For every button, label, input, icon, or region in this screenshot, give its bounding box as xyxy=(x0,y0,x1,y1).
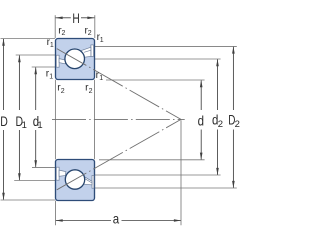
label D1 xyxy=(16,113,27,131)
svg-text:1: 1 xyxy=(37,120,42,131)
lower section right gap wedge xyxy=(84,176,92,185)
label r1 right upper xyxy=(97,32,104,44)
svg-text:1: 1 xyxy=(100,37,104,44)
bearing lower section outer square xyxy=(56,160,95,201)
extension line H left xyxy=(54,15,56,38)
label d xyxy=(198,112,204,128)
extension line D2 top xyxy=(94,45,237,47)
svg-text:1: 1 xyxy=(99,75,103,82)
dimension d1 xyxy=(34,67,37,168)
upper contact line xyxy=(57,49,181,120)
svg-text:2: 2 xyxy=(235,119,240,130)
svg-text:2: 2 xyxy=(218,119,223,130)
extension line H right xyxy=(94,15,96,38)
label D xyxy=(0,113,8,129)
label r1 right lower xyxy=(96,70,104,82)
extension line d2 bottom xyxy=(95,174,221,176)
svg-text:2: 2 xyxy=(61,88,65,95)
label a xyxy=(113,210,120,226)
label r2 bottom left xyxy=(57,83,65,95)
extension line a left xyxy=(55,201,57,226)
extension line D1 bottom xyxy=(14,180,55,182)
lower section left gap band xyxy=(59,170,66,176)
bearing upper section outer square xyxy=(56,39,95,80)
upper section ball xyxy=(65,49,85,69)
upper section right gap wedge xyxy=(81,47,91,57)
extension line D top xyxy=(1,38,56,40)
dimension D1 xyxy=(18,55,21,181)
extension line a right (apex) xyxy=(180,120,182,225)
extension line D bottom xyxy=(1,199,56,201)
label d1 xyxy=(33,113,43,131)
dimension D2 xyxy=(232,46,235,188)
svg-text:2: 2 xyxy=(62,30,66,37)
dimension H xyxy=(55,17,94,20)
dimension a xyxy=(56,219,182,222)
extension line d bottom xyxy=(99,159,205,161)
lower section left recess strip xyxy=(56,167,59,180)
upper section left gap band xyxy=(59,59,66,64)
label r2 bottom right xyxy=(85,83,93,95)
label d2 xyxy=(212,111,223,130)
svg-text:2: 2 xyxy=(89,88,93,95)
dimension d xyxy=(200,80,203,160)
label D2 xyxy=(228,112,240,131)
svg-text:2: 2 xyxy=(88,30,92,37)
axis centerline xyxy=(52,118,185,120)
svg-text:D: D xyxy=(0,113,8,129)
svg-text:d: d xyxy=(198,112,204,128)
svg-text:H: H xyxy=(72,10,79,26)
extension line d2 top xyxy=(94,58,221,60)
upper section right recess strip xyxy=(91,45,94,57)
upper section right land line xyxy=(84,50,91,52)
lower section right land line xyxy=(84,178,92,183)
extension line D1 top xyxy=(16,54,56,56)
bearing face line left xyxy=(54,80,56,160)
svg-text:1: 1 xyxy=(50,42,54,49)
label r1 left lower xyxy=(46,68,54,80)
label H xyxy=(72,10,79,26)
extension line d1 bottom xyxy=(32,166,56,168)
lower section ball xyxy=(65,170,84,189)
label r2 top right xyxy=(85,25,92,37)
upper section left recess strip xyxy=(56,55,59,67)
extension line d top xyxy=(106,79,205,81)
extension line D2 bottom xyxy=(95,187,237,189)
dimension D xyxy=(2,39,5,201)
label r2 top left xyxy=(58,25,65,37)
dimension d2 xyxy=(216,59,219,175)
bearing face line right xyxy=(94,80,96,160)
svg-text:1: 1 xyxy=(22,120,27,131)
extension line d1 top xyxy=(32,66,56,68)
label r1 left upper xyxy=(47,37,54,49)
lower contact line xyxy=(57,119,181,189)
lower section right recess strip xyxy=(92,175,94,188)
svg-text:a: a xyxy=(113,210,120,226)
svg-text:1: 1 xyxy=(49,74,53,81)
